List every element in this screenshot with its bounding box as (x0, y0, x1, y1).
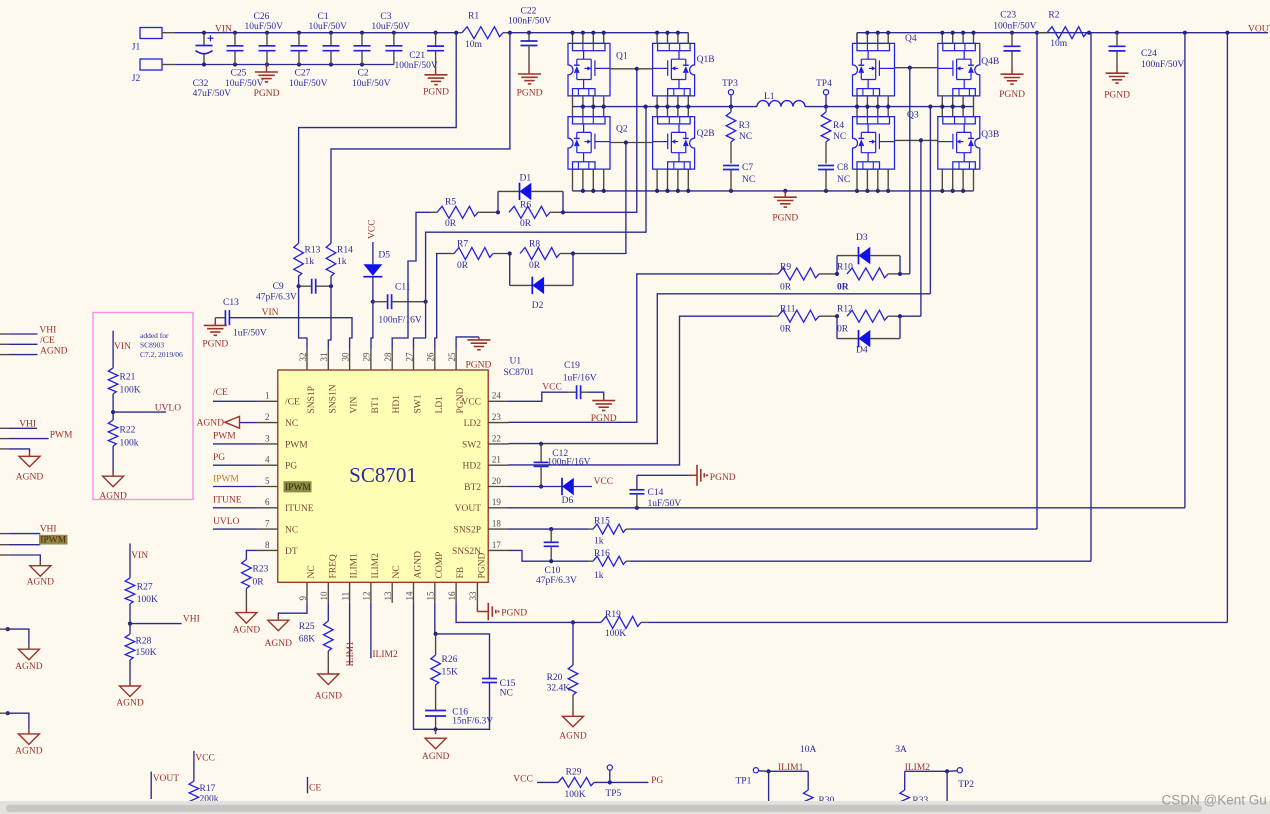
svg-text:1k: 1k (305, 257, 315, 267)
svg-text:C24: C24 (1141, 49, 1157, 59)
resistor R20 (547, 622, 578, 716)
svg-text:ILIM1: ILIM1 (350, 553, 360, 579)
wire UVLO pin 7 (213, 528, 257, 530)
power port AGND at C16 (422, 729, 450, 762)
resistor R8 (520, 240, 573, 272)
svg-text:17: 17 (492, 540, 502, 550)
svg-text:28: 28 (383, 352, 393, 362)
wire PWM pin 3 (213, 443, 257, 445)
node R7/R8 junction (508, 251, 512, 255)
pin 11 ILIM1 (340, 553, 359, 603)
capacitor C9 (256, 279, 331, 303)
resistor R30 body (803, 790, 834, 814)
svg-text:8: 8 (265, 540, 270, 550)
svg-text:NC: NC (500, 688, 513, 698)
wire Q1 drain stubs (570, 31, 605, 44)
wire SW2 vertical (929, 107, 931, 294)
svg-text:10uF/50V: 10uF/50V (289, 79, 328, 89)
svg-text:D2: D2 (532, 301, 544, 311)
svg-text:R26: R26 (442, 655, 458, 665)
transistor Q1B (653, 43, 715, 96)
svg-text:Q1B: Q1B (697, 55, 715, 65)
net label VCC at C19 (542, 383, 562, 393)
svg-text:C7.2, 2019/06: C7.2, 2019/06 (140, 350, 183, 359)
power port PGND at pin 33 (477, 603, 527, 621)
wire Q1 Q1B gate row (610, 67, 653, 71)
power port VCC at D5 (368, 219, 378, 264)
wire LD2 gate drive vertical (920, 140, 922, 316)
wire VOUT pin 19 (509, 33, 1185, 508)
diode D1 (498, 174, 563, 213)
node input ground junctions (202, 62, 364, 66)
svg-text:D6: D6 (562, 496, 574, 506)
svg-text:0R: 0R (780, 325, 792, 335)
svg-text:PGND: PGND (517, 89, 543, 99)
node R9/R10 junction (835, 272, 839, 276)
svg-text:R3: R3 (739, 121, 750, 131)
net label VHI pwm group (19, 420, 36, 430)
svg-text:D4: D4 (856, 346, 868, 356)
svg-text:0R: 0R (837, 283, 849, 293)
wire COMP pin 15 (434, 603, 438, 636)
wire stub to AGND B (0, 711, 29, 734)
svg-text:10m: 10m (1050, 39, 1068, 49)
svg-text:NC: NC (392, 565, 402, 578)
svg-text:AGND: AGND (15, 662, 43, 672)
power port AGND stub B (15, 734, 43, 757)
node R8 right junction (571, 251, 575, 255)
svg-text:10m: 10m (465, 40, 483, 50)
svg-text:R25: R25 (299, 622, 315, 632)
wire VIN divider 2 (129, 544, 131, 578)
wire UVLO net (113, 411, 166, 413)
resistor R10 (837, 263, 900, 293)
pin 15 COMP (426, 552, 445, 603)
net label ITUNE (213, 496, 242, 506)
svg-text:10uF/50V: 10uF/50V (225, 79, 264, 89)
capacitor C22 (508, 7, 551, 67)
svg-text:NC: NC (307, 565, 317, 578)
net label VIN (215, 25, 232, 35)
wire HD2 from pin 21 (509, 316, 773, 465)
svg-text:10uF/50V: 10uF/50V (245, 22, 284, 32)
svg-text:0R: 0R (529, 261, 541, 271)
svg-text:4: 4 (265, 455, 270, 465)
svg-text:2: 2 (265, 412, 270, 422)
capacitor C16 (425, 708, 493, 732)
pin 13 NC (383, 565, 402, 603)
node R10 right junction (898, 272, 902, 276)
wire harness VHI top (0, 333, 38, 335)
svg-text:FB: FB (456, 567, 466, 579)
power port PGND at pin 25 (456, 337, 491, 370)
svg-text:C14: C14 (648, 488, 664, 498)
svg-text:VOUT: VOUT (153, 774, 180, 784)
svg-text:22: 22 (492, 433, 501, 443)
pin 6 ITUNE (257, 497, 313, 514)
capacitor C25 (225, 33, 264, 89)
svg-text:C15: C15 (500, 679, 516, 689)
net label VHI ipwm group (40, 525, 57, 535)
power port AGND pwm group (16, 456, 44, 482)
svg-text:Q3: Q3 (907, 111, 919, 121)
svg-text:R4: R4 (833, 121, 844, 131)
svg-text:R22: R22 (120, 426, 136, 436)
net label VOUT bottom (151, 772, 179, 799)
power port PGND at C24 (1104, 66, 1130, 101)
wire LD1 from pin 26 (435, 254, 447, 350)
capacitor C15 branch (436, 634, 516, 729)
wire SNS2P pin 18 (509, 528, 589, 530)
wire /CE pin 1 (213, 400, 257, 402)
node R11/R12 junction (835, 314, 839, 318)
svg-text:100K: 100K (137, 595, 158, 605)
resistor R26 (431, 634, 458, 711)
resistor R3 (726, 107, 752, 164)
svg-text:5: 5 (265, 476, 270, 486)
svg-text:R5: R5 (445, 198, 456, 208)
svg-text:AGND: AGND (265, 639, 293, 649)
resistor R22 (108, 412, 138, 476)
pin 7 NC (257, 519, 298, 536)
svg-text:PGND: PGND (591, 414, 617, 424)
svg-text:SC8903: SC8903 (140, 340, 164, 349)
svg-text:Q2: Q2 (616, 125, 628, 135)
net label PG bottom (651, 776, 663, 786)
svg-text:100nF/16V: 100nF/16V (378, 316, 421, 326)
resistor R5 (430, 198, 498, 230)
svg-text:PWM: PWM (285, 440, 308, 450)
net label AGND harness (40, 346, 68, 356)
svg-text:R6: R6 (520, 201, 531, 211)
svg-text:23: 23 (492, 412, 502, 422)
pin 1 /CE (257, 391, 300, 408)
svg-text:D1: D1 (520, 174, 532, 184)
test point TP4 (816, 79, 832, 109)
node C9 junctions (297, 276, 334, 288)
wire input ground rail (175, 64, 394, 66)
svg-text:C32: C32 (193, 79, 209, 89)
pin 21 HD2 (463, 455, 509, 472)
wire ILIM1 down (768, 771, 770, 814)
wire top rail to bridge (507, 33, 688, 44)
svg-text:AGND: AGND (16, 472, 44, 482)
svg-text:R14: R14 (337, 246, 353, 256)
capacitor C11 (373, 283, 426, 326)
svg-text:IPWM: IPWM (285, 483, 311, 493)
net label ILIM1 bottom (767, 763, 809, 774)
power port AGND at R28 (116, 686, 144, 709)
pin 9 NC (298, 565, 317, 603)
wire HD1 to Q1 gates (563, 69, 637, 213)
svg-text:VHI: VHI (39, 326, 56, 336)
transistor Q3 (853, 111, 919, 170)
capacitor C7 (723, 163, 755, 191)
svg-text:150K: 150K (136, 648, 157, 658)
svg-text:J2: J2 (132, 74, 141, 84)
svg-text:IPWM: IPWM (40, 536, 66, 546)
resistor R13 (294, 243, 321, 276)
test point TP2 (947, 768, 974, 791)
svg-text:AGND: AGND (27, 577, 55, 587)
test point TP1 (736, 768, 769, 787)
wire ILIM1 pin 11 (349, 603, 351, 665)
svg-text:R8: R8 (529, 240, 540, 250)
svg-text:PGND: PGND (1104, 91, 1130, 101)
svg-text:100K: 100K (605, 629, 626, 639)
net label IPWM (213, 474, 239, 484)
svg-text:/CE: /CE (213, 388, 228, 398)
pin 32 SNS1P (298, 349, 317, 413)
resistor R30 (807, 771, 809, 790)
power port AGND pin 9 (265, 620, 293, 649)
svg-text:25: 25 (447, 352, 457, 362)
node R5/R6 left junction (496, 210, 500, 214)
wire BT1 node (371, 277, 375, 350)
svg-text:DT: DT (285, 547, 298, 557)
svg-text:PWM: PWM (213, 432, 236, 442)
svg-text:19: 19 (492, 497, 502, 507)
svg-text:10uF/50V: 10uF/50V (352, 79, 391, 89)
wire LD2 to Q4 gates (900, 273, 910, 275)
node R12 right junction (898, 314, 902, 318)
svg-text:1k: 1k (594, 571, 604, 581)
svg-text:TP2: TP2 (958, 780, 974, 790)
svg-text:ILIM2: ILIM2 (371, 553, 381, 579)
svg-text:7: 7 (265, 519, 270, 529)
svg-text:ILIM1: ILIM1 (346, 641, 356, 667)
svg-text:SC8701: SC8701 (349, 463, 417, 487)
wire SNS1N to pin 31 (328, 286, 331, 349)
svg-text:UVLO: UVLO (213, 517, 240, 527)
svg-text:0R: 0R (837, 325, 849, 335)
svg-text:TP3: TP3 (722, 79, 738, 89)
power port PGND at C21 (423, 66, 449, 98)
wire harness PWM (0, 438, 49, 440)
capacitor C2 (352, 33, 391, 89)
wire SW2 mid rail (805, 96, 974, 117)
node UVLO junction (111, 410, 115, 414)
wire VHI net (130, 623, 182, 625)
svg-text:VCC: VCC (542, 383, 562, 393)
svg-text:C23: C23 (1000, 10, 1016, 20)
svg-text:NC: NC (739, 132, 752, 142)
svg-text:AGND: AGND (559, 731, 587, 741)
svg-text:100nF/50V: 100nF/50V (508, 16, 551, 26)
wire SNS1N sense (331, 33, 510, 244)
svg-text:VIN: VIN (215, 25, 232, 35)
svg-text:L1: L1 (764, 92, 775, 102)
svg-text:R16: R16 (594, 549, 610, 559)
svg-text:32: 32 (298, 353, 308, 362)
wire SNS2N pin 17 (509, 550, 589, 561)
svg-text:AGND: AGND (422, 752, 450, 762)
pin 31 SNS1N (319, 349, 338, 413)
svg-text:FREQ: FREQ (328, 554, 338, 578)
wire SNS2P to R2 left (631, 33, 1037, 529)
svg-text:NC: NC (833, 132, 846, 142)
pin 22 SW2 (462, 433, 509, 450)
svg-text:9: 9 (298, 596, 308, 601)
svg-text:D3: D3 (856, 233, 868, 243)
svg-text:100k: 100k (120, 439, 139, 449)
resistor R33 (900, 771, 929, 814)
wire VIN to pin 30 (229, 318, 352, 350)
net label VHI divider (183, 614, 200, 624)
svg-text:AGND: AGND (233, 626, 261, 636)
power port AGND stub A (15, 649, 43, 672)
svg-text:/CE: /CE (285, 398, 300, 408)
svg-text:10: 10 (319, 591, 329, 601)
wire ITUNE pin 6 (213, 507, 257, 509)
svg-text:12: 12 (362, 592, 372, 601)
wire SW2 from pin 22 (509, 294, 931, 444)
wire HD2 gate drive vertical (909, 68, 911, 274)
net label VIN divider 2 (131, 551, 148, 561)
net label UVLO (213, 517, 240, 527)
net label PWM (213, 432, 236, 442)
svg-text:R20: R20 (547, 673, 563, 683)
wire SW1 mid rail (573, 96, 758, 117)
svg-text:100nF/50V: 100nF/50V (1141, 60, 1184, 70)
wire harness to AGND pwm group (0, 449, 30, 456)
wire Q4 Q4B gate row (895, 66, 938, 70)
pin 16 FB (447, 567, 466, 603)
svg-text:10uF/50V: 10uF/50V (371, 22, 410, 32)
svg-text:AGND: AGND (15, 747, 43, 757)
transistor Q3B (938, 117, 999, 170)
wire ILIM2 down (946, 771, 948, 814)
net label 3A (895, 745, 907, 755)
resistor R15 (588, 517, 631, 547)
resistor R17 (189, 751, 219, 807)
svg-text:ILIM1: ILIM1 (778, 763, 804, 773)
svg-text:R17: R17 (200, 784, 216, 794)
svg-text:LD1: LD1 (435, 396, 445, 414)
svg-text:10A: 10A (800, 745, 817, 755)
wire PG pin 4 (213, 464, 257, 466)
svg-text:AGND: AGND (99, 492, 127, 502)
svg-text:Q4: Q4 (905, 34, 917, 44)
svg-text:20: 20 (492, 476, 502, 486)
resistor R19 (573, 610, 648, 639)
svg-text:R1: R1 (468, 12, 479, 22)
wire Q3 Q3B gate row (895, 138, 938, 142)
svg-text:0R: 0R (457, 261, 469, 271)
svg-text:C7: C7 (742, 163, 753, 173)
svg-text:AGND: AGND (197, 418, 225, 428)
transistor Q2B (653, 117, 715, 170)
svg-text:15nF/6.3V: 15nF/6.3V (452, 717, 493, 727)
svg-text:15: 15 (426, 591, 436, 601)
svg-text:R29: R29 (566, 768, 582, 778)
pin 30 VIN (340, 349, 359, 413)
svg-text:R15: R15 (594, 517, 610, 527)
svg-text:C9: C9 (273, 282, 284, 292)
power port PGND at C22 (517, 66, 543, 99)
svg-text:PGND: PGND (501, 608, 527, 618)
power port PGND at bridge (772, 191, 798, 224)
pin 14 AGND (404, 551, 423, 603)
wire VCC pin 24 (509, 392, 569, 401)
net label /CE harness (40, 336, 55, 346)
svg-text:33: 33 (468, 591, 478, 601)
power port PGND at C23 (999, 67, 1025, 100)
svg-text:R21: R21 (120, 373, 136, 383)
svg-text:C21: C21 (409, 51, 425, 61)
pin 19 VOUT (455, 497, 509, 514)
pin 28 HD1 (383, 349, 402, 413)
transistor Q2 (568, 117, 628, 170)
pin 10 FREQ (319, 554, 338, 603)
svg-text:PGND: PGND (477, 552, 487, 578)
svg-text:VOUT: VOUT (455, 504, 482, 514)
svg-text:1k: 1k (594, 536, 604, 546)
resistor R12 (837, 305, 900, 335)
svg-text:PG: PG (213, 453, 225, 463)
svg-text:21: 21 (492, 455, 501, 465)
svg-text:6: 6 (265, 497, 270, 507)
connector J2 (132, 59, 175, 84)
svg-text:R13: R13 (305, 246, 321, 256)
resistor R25 (299, 603, 333, 674)
annotation box added for SC8903 (93, 313, 193, 500)
svg-text:31: 31 (319, 353, 329, 362)
capacitor C8 (818, 163, 850, 191)
resistor R11 (772, 305, 837, 335)
svg-text:AGND: AGND (414, 551, 424, 579)
svg-text:30: 30 (340, 352, 350, 362)
capacitor C14 (629, 475, 681, 510)
capacitor C12 (534, 442, 591, 489)
svg-text:R7: R7 (457, 240, 468, 250)
svg-text:R19: R19 (605, 610, 621, 620)
svg-text:100K: 100K (120, 386, 141, 396)
node VOUT rail taps (1183, 31, 1230, 35)
net label VCC at R29 (513, 775, 533, 785)
watermark (1162, 793, 1267, 808)
inductor L1 (757, 92, 805, 107)
net label VIN at C13 (262, 308, 279, 318)
resistor R28 (125, 624, 157, 686)
pin 24 VCC (461, 391, 508, 408)
resistor R23 (242, 550, 269, 612)
svg-text:Q3B: Q3B (981, 130, 999, 140)
svg-text:1uF/50V: 1uF/50V (648, 499, 682, 509)
svg-text:J1: J1 (132, 42, 141, 52)
svg-text:C27: C27 (295, 69, 311, 79)
pin 2 NC (257, 412, 298, 429)
svg-text:PG: PG (651, 776, 663, 786)
svg-text:1uF/16V: 1uF/16V (563, 373, 597, 383)
svg-text:VIN: VIN (114, 342, 131, 352)
svg-text:PGND: PGND (772, 214, 798, 224)
svg-text:VIN: VIN (131, 551, 148, 561)
svg-text:27: 27 (404, 352, 414, 362)
resistor R1 (458, 12, 507, 51)
net label PWM harness (50, 431, 73, 441)
op-amp U1 SC8701 body (278, 357, 535, 583)
wire Q3 Q3B source stubs (857, 169, 974, 191)
svg-text:HD1: HD1 (392, 395, 402, 414)
svg-text:3: 3 (265, 433, 270, 443)
net label VHI top (39, 326, 56, 336)
net label VIN in box (114, 342, 131, 352)
pin 23 LD2 (464, 412, 509, 429)
svg-text:26: 26 (426, 352, 436, 362)
svg-text:PGND: PGND (254, 89, 280, 99)
node VIN rail junctions (202, 31, 438, 35)
